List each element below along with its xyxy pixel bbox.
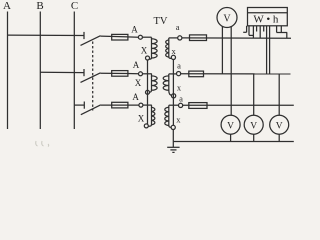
svg-text:X: X (141, 46, 148, 56)
meter drop to phase b (266, 26, 268, 74)
svg-text:x: x (176, 115, 181, 125)
meter terminal link 1 (248, 26, 250, 36)
wire phase B tap (40, 71, 83, 73)
bus B (39, 12, 41, 130)
svg-text:V: V (276, 122, 283, 132)
meter drop to phase a (252, 26, 254, 39)
svg-text:X: X (138, 114, 145, 124)
TV2 primary winding (149, 74, 157, 92)
svg-text:a: a (179, 94, 183, 104)
wire A2 to winding (143, 73, 152, 75)
fuse FU5 (189, 71, 204, 77)
terminal A1 (138, 35, 142, 39)
svg-text:A: A (3, 0, 11, 12)
meter terminal stub 2 (263, 26, 265, 32)
svg-text:A: A (133, 60, 140, 70)
wire A3 to winding (143, 104, 152, 106)
wire QS1 to fuse FU1 (101, 36, 139, 37)
primary neutral bus X1-X2-X3 (147, 60, 149, 124)
terminal a1 (178, 36, 182, 40)
svg-text:C: C (71, 0, 78, 12)
secondary neutral bus x1-x2-x3 (172, 60, 174, 126)
wire phase b to PV3 (253, 74, 255, 115)
TV3 secondary winding (165, 105, 171, 127)
wire phase a secondary (182, 37, 291, 39)
fuse FU2 (112, 71, 128, 77)
terminal x2 (172, 94, 176, 98)
switch QS1 fixed contact (83, 32, 85, 39)
terminal X1 (146, 56, 150, 60)
wire phase b secondary (181, 73, 291, 75)
switch QS1 blade (81, 36, 101, 46)
fuse FU6 (189, 103, 207, 109)
PV1 right lead / wire to PV2 (230, 27, 232, 115)
wire QS3 to fuse FU3 (101, 104, 139, 106)
bus C (73, 12, 75, 130)
PV4 bottom lead (278, 134, 280, 141)
wire phase C tap (74, 104, 84, 106)
wire phase b to PV4 (278, 74, 280, 115)
wire x3 to ground node (172, 130, 174, 142)
svg-text:X: X (135, 78, 142, 88)
terminal a3 (179, 103, 183, 107)
PV1 left lead (221, 27, 223, 74)
bus A (7, 12, 9, 130)
switch QS3 fixed contact (83, 102, 85, 109)
meter terminal tail (243, 31, 246, 33)
switch QS2 blade (81, 73, 101, 83)
voltmeter PV2 (221, 115, 240, 134)
neutral wire n (173, 141, 293, 143)
svg-text:x: x (171, 46, 176, 56)
svg-text:V: V (250, 122, 257, 132)
wire QS2 to fuse FU2 (101, 72, 139, 75)
terminal a2 (177, 72, 181, 76)
svg-text:W•h: W•h (253, 13, 281, 25)
meter terminal stub (256, 26, 258, 32)
terminal x3 (171, 125, 175, 129)
PV3 bottom lead (253, 134, 255, 141)
svg-text:a: a (177, 60, 181, 70)
meter terminal link right (276, 26, 278, 33)
TV1 primary winding (149, 37, 157, 59)
meter drop to phase a 2 (259, 26, 261, 39)
fuse FU4 (190, 35, 207, 41)
svg-text:A: A (132, 92, 139, 102)
terminal X3 (144, 124, 148, 128)
svg-text:a: a (176, 22, 180, 32)
TV3 primary winding (148, 105, 155, 126)
wire phase A tap (8, 34, 84, 36)
switch QS3 blade (81, 105, 101, 115)
switch QS2 fixed contact (83, 69, 85, 76)
fuse FU1 (112, 34, 128, 40)
terminal A2 (139, 72, 143, 76)
terminal X2 (146, 90, 150, 94)
watt-hour meter PJ (248, 8, 288, 26)
switch gang linkage (dashed) (92, 42, 94, 111)
terminal x1 (171, 55, 175, 59)
svg-text:B: B (36, 0, 43, 12)
fuse FU3 (112, 102, 128, 108)
TV1 secondary winding (166, 38, 172, 58)
meter right drop to phase a (286, 33, 288, 39)
svg-text:V: V (227, 122, 234, 132)
wire A1 to winding (142, 36, 151, 38)
svg-text:V: V (223, 14, 231, 25)
voltmeter PV1 (217, 8, 237, 28)
wire winding to a2 (169, 73, 177, 75)
wire phase c secondary (183, 104, 294, 106)
wire winding to a1 (169, 37, 178, 39)
svg-text:TV: TV (154, 16, 168, 27)
meter drop to phase b 2 (269, 26, 271, 74)
PV2 bottom lead (230, 134, 232, 141)
wire winding to a3 (169, 104, 179, 106)
voltmeter PV3 (244, 115, 263, 134)
ground (172, 142, 174, 148)
svg-text:A: A (131, 24, 138, 34)
voltmeter PV4 (270, 115, 289, 134)
TV2 secondary winding (163, 74, 171, 95)
terminal A3 (139, 103, 143, 107)
